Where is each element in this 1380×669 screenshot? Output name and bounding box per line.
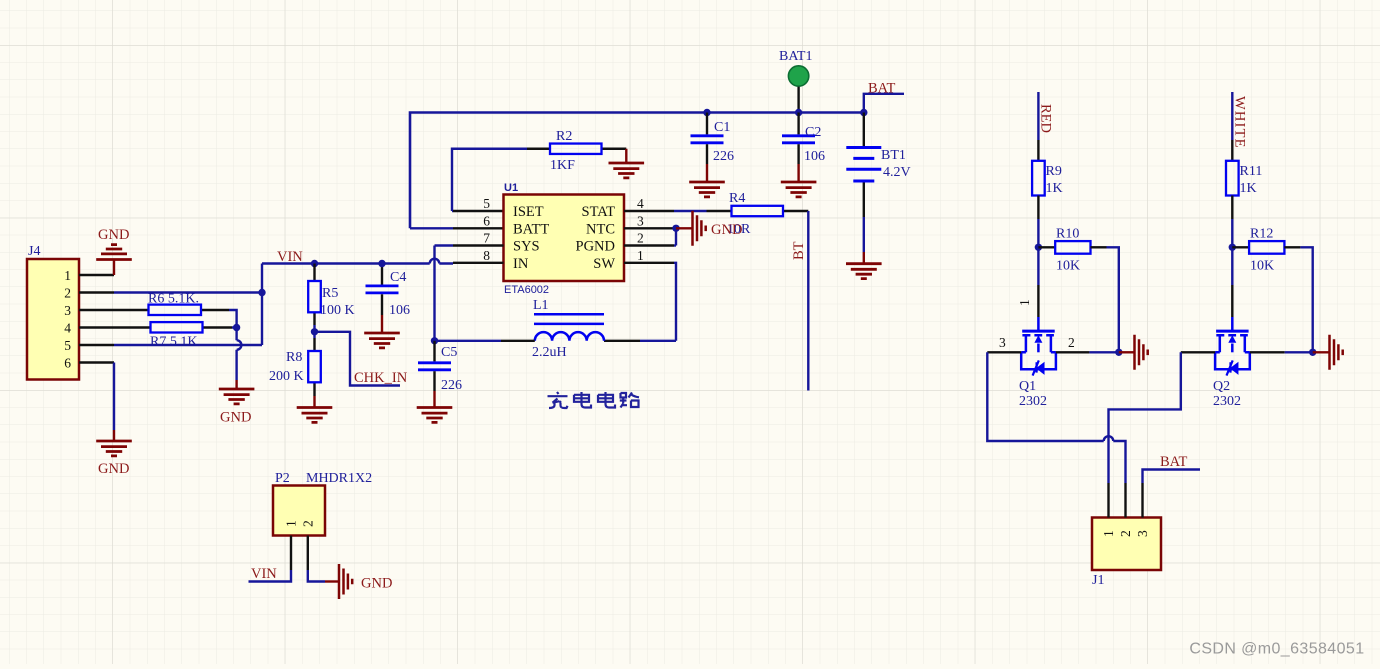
svg-text:R7 5.1K: R7 5.1K	[150, 335, 197, 350]
svg-text:10K: 10K	[1250, 259, 1274, 274]
svg-text:10K: 10K	[1056, 259, 1080, 274]
svg-text:3: 3	[1135, 530, 1150, 537]
svg-text:106: 106	[804, 149, 825, 164]
U1 pin number 5	[483, 196, 490, 211]
ground below C1	[689, 164, 725, 197]
junction R5/R8/CHK_IN	[311, 325, 318, 338]
resistor R7	[138, 322, 232, 349]
svg-text:SYS: SYS	[513, 239, 540, 255]
J4 pin 3	[64, 303, 136, 318]
svg-text:GND: GND	[98, 227, 129, 243]
svg-text:2.2uH: 2.2uH	[532, 345, 567, 360]
wire SYS down to C5 node	[433, 246, 435, 341]
svg-text:226: 226	[713, 149, 734, 164]
resistor R6	[136, 292, 229, 316]
svg-text:VIN: VIN	[251, 566, 277, 582]
svg-text:1K: 1K	[1240, 181, 1257, 196]
svg-text:7: 7	[483, 231, 490, 246]
U1 pin number 3	[637, 213, 644, 228]
wire BT vertical	[807, 211, 809, 391]
svg-text:4: 4	[637, 196, 644, 211]
wire pin2 to VIN node	[114, 291, 262, 293]
U1 pin number 8	[483, 248, 490, 263]
U1 pin3 NTC stub	[624, 227, 676, 229]
svg-text:STAT: STAT	[582, 204, 616, 220]
wire R6 right to gnd column	[229, 310, 237, 318]
svg-text:SW: SW	[593, 256, 615, 272]
capacitor C5	[418, 341, 462, 393]
svg-text:2: 2	[300, 520, 315, 527]
resistor R11	[1226, 140, 1262, 219]
U1 pin1 SW stub	[624, 263, 676, 341]
J4 pin 6	[64, 356, 114, 371]
net label BAT at J1	[1143, 454, 1201, 483]
junction Q1 source/R10	[1115, 349, 1122, 356]
ground right of Q2	[1313, 335, 1343, 370]
U1 pin number 4	[637, 196, 644, 211]
svg-text:GND: GND	[220, 410, 251, 426]
J4 pin 2	[64, 286, 114, 301]
svg-text:BAT: BAT	[868, 81, 896, 97]
Q1 source stub	[1056, 351, 1119, 353]
capacitor C1	[691, 113, 735, 165]
title 充电电路	[548, 392, 640, 408]
svg-text:J1: J1	[1092, 573, 1104, 588]
wire CHK_IN	[315, 332, 401, 386]
junction C2	[795, 109, 802, 116]
net label VIN at P2	[251, 566, 277, 582]
svg-text:BT1: BT1	[881, 148, 906, 163]
resistor R8	[269, 338, 321, 396]
P2 pin 1	[284, 520, 299, 570]
svg-text:MHDR1X2: MHDR1X2	[306, 471, 372, 486]
wire R2 to U1 pin5 ISET	[452, 149, 527, 211]
connector J4	[27, 244, 79, 380]
Q2 source stub	[1250, 351, 1313, 353]
svg-text:5: 5	[64, 338, 71, 353]
J1 pin 1	[1101, 483, 1116, 537]
net label CHK_IN	[354, 370, 408, 386]
svg-text:L1: L1	[533, 298, 549, 313]
svg-text:GND: GND	[98, 461, 129, 477]
net label WHITE	[1232, 96, 1248, 149]
test point BAT1	[779, 49, 812, 113]
resistor R4	[707, 191, 809, 237]
svg-text:4: 4	[64, 321, 71, 336]
net label VIN	[277, 249, 303, 265]
svg-text:1: 1	[64, 268, 71, 283]
svg-text:C4: C4	[390, 270, 406, 285]
wire R12 to source node	[1300, 247, 1312, 352]
svg-text:R5: R5	[322, 286, 338, 301]
junction R11/R12	[1229, 244, 1236, 251]
svg-text:PGND: PGND	[576, 239, 615, 255]
svg-text:2: 2	[1068, 335, 1075, 350]
J4 pin 1	[64, 268, 114, 283]
svg-text:R11: R11	[1240, 164, 1263, 179]
svg-text:106: 106	[389, 303, 410, 318]
watermark	[1189, 641, 1364, 658]
J1 pin 2	[1118, 483, 1133, 537]
wire Q1 gate to J1 pin2	[987, 352, 1125, 483]
svg-text:BAT: BAT	[1160, 454, 1188, 470]
resistor R9	[1032, 140, 1063, 219]
ground below C5	[417, 391, 453, 422]
svg-text:J4: J4	[28, 244, 40, 259]
svg-text:2302: 2302	[1213, 394, 1241, 409]
junction R7/gnd	[233, 324, 240, 331]
wire R11 to Q2 drain	[1231, 219, 1233, 285]
svg-text:RED: RED	[1038, 104, 1054, 133]
svg-text:C1: C1	[714, 120, 730, 135]
svg-text:GND: GND	[361, 576, 392, 592]
svg-text:R8: R8	[286, 350, 302, 365]
junction R9/R10	[1035, 244, 1042, 251]
wire Q2 gate to J1 pin1 with hop	[1109, 352, 1181, 483]
ground below R6/R7	[219, 380, 255, 426]
svg-text:R10: R10	[1056, 227, 1079, 242]
wire pin6 down to ground	[113, 363, 115, 431]
junction C1	[703, 109, 710, 116]
ground above J4 pin1	[96, 227, 132, 275]
svg-text:1KF: 1KF	[550, 158, 575, 173]
svg-text:1K: 1K	[1046, 181, 1063, 196]
junction BT1	[860, 109, 867, 116]
ground right of NTC	[676, 211, 742, 246]
wire VIN horizontal	[262, 259, 453, 264]
svg-text:1: 1	[1017, 299, 1032, 306]
Q1 pin label 1	[1017, 299, 1032, 306]
resistor R12	[1232, 227, 1300, 274]
svg-text:Q2: Q2	[1213, 379, 1230, 394]
svg-text:100 K: 100 K	[320, 303, 355, 318]
wire RED to R9	[1037, 92, 1039, 140]
ground right of Q1	[1119, 335, 1148, 370]
svg-text:1: 1	[1101, 530, 1116, 537]
ground below R8	[297, 396, 333, 422]
svg-text:R2: R2	[556, 129, 572, 144]
svg-text:U1: U1	[504, 182, 518, 194]
junction NTC/PGND	[672, 225, 679, 246]
svg-text:R4: R4	[729, 191, 745, 206]
svg-text:226: 226	[441, 378, 462, 393]
svg-text:1: 1	[284, 520, 299, 527]
junction C5	[431, 337, 438, 344]
ground below C2	[781, 164, 817, 197]
wire R10 to source node	[1107, 247, 1119, 352]
junction pin2/VIN column	[258, 289, 265, 296]
svg-text:IN: IN	[513, 256, 529, 272]
junction VIN/C4	[378, 260, 385, 267]
svg-text:3: 3	[64, 303, 71, 318]
capacitor C4	[366, 264, 411, 319]
ground at P2 pin2	[325, 564, 392, 599]
svg-text:R6 5.1K.: R6 5.1K.	[148, 292, 199, 307]
svg-text:2: 2	[64, 286, 71, 301]
svg-text:BAT1: BAT1	[779, 49, 812, 64]
Q2 gate stub	[1181, 351, 1215, 353]
Q1 pin label 3	[999, 335, 1006, 350]
J4 pin 5	[64, 338, 114, 353]
net label RED	[1038, 104, 1054, 133]
svg-text:WHITE: WHITE	[1232, 96, 1248, 149]
ground below BT1	[846, 252, 882, 279]
resistor R10	[1038, 227, 1106, 274]
net label BT	[791, 241, 807, 260]
svg-text:4.2V: 4.2V	[883, 165, 911, 180]
wire pin5 to VIN column with hop	[114, 264, 262, 346]
net label BAT top	[864, 81, 904, 113]
U1 pin number 7	[483, 231, 490, 246]
svg-text:1: 1	[637, 248, 644, 263]
resistor R2	[527, 129, 626, 173]
resistor R5	[308, 264, 354, 326]
wire L1 left to C5 node	[435, 340, 535, 342]
svg-text:GND: GND	[711, 222, 742, 238]
U1 pin7 SYS stub	[435, 244, 504, 246]
J4 pin 4	[64, 321, 138, 336]
U1 pin2 PGND stub	[624, 244, 676, 246]
svg-text:Q1: Q1	[1019, 379, 1036, 394]
IC U1 ETA6002	[504, 182, 625, 296]
svg-text:3: 3	[999, 335, 1006, 350]
wire SW to L1	[604, 340, 676, 342]
Q1 pin label 2	[1068, 335, 1075, 350]
svg-text:CHK_IN: CHK_IN	[354, 370, 408, 386]
junction VIN/R5	[311, 260, 318, 267]
U1 pin8 IN stub	[453, 262, 504, 264]
wire R9 to Q1 drain	[1037, 219, 1039, 285]
U1 pin4 STAT stub	[624, 210, 707, 212]
svg-text:ETA6002: ETA6002	[504, 284, 549, 296]
svg-text:BATT: BATT	[513, 221, 549, 237]
U1 pin number 1	[637, 248, 644, 263]
svg-text:C5: C5	[441, 345, 457, 360]
svg-text:6: 6	[483, 213, 490, 228]
wire P2 pin1 to VIN	[249, 570, 292, 582]
svg-text:BT: BT	[791, 241, 807, 260]
svg-text:R12: R12	[1250, 227, 1273, 242]
svg-text:ISET: ISET	[513, 204, 544, 220]
connector J1	[1092, 518, 1161, 589]
U1 pin number 6	[483, 213, 490, 228]
wire WHITE to R11	[1231, 92, 1233, 140]
ground at R2 right	[609, 149, 645, 178]
wire R7 right to gnd column	[232, 318, 241, 380]
svg-text:C2: C2	[805, 125, 821, 140]
junction Q2 source/R12	[1309, 349, 1316, 356]
svg-text:200 K: 200 K	[269, 369, 304, 384]
svg-text:6: 6	[64, 356, 71, 371]
wire U1 pin6 BATT	[410, 227, 504, 229]
capacitor C2	[782, 113, 825, 165]
svg-text:CSDN @m0_63584051: CSDN @m0_63584051	[1189, 641, 1364, 658]
svg-text:NTC: NTC	[586, 221, 615, 237]
transistor Q1	[1019, 285, 1056, 409]
svg-text:2: 2	[1118, 530, 1133, 537]
ground below C4	[364, 315, 400, 348]
svg-text:2: 2	[637, 231, 644, 246]
svg-text:2302: 2302	[1019, 394, 1047, 409]
P2 pin 2	[300, 520, 315, 570]
wire BATT top rail	[410, 113, 864, 229]
J1 pin 3	[1135, 483, 1150, 537]
Q1 gate stub	[987, 351, 1021, 353]
svg-text:R9: R9	[1046, 164, 1062, 179]
connector P2	[273, 471, 372, 536]
svg-text:P2: P2	[275, 471, 290, 486]
battery BT1	[846, 113, 910, 253]
svg-text:3: 3	[637, 213, 644, 228]
wire P2 pin2 to ground	[308, 570, 325, 582]
transistor Q2	[1213, 285, 1250, 409]
ground below J4 pin6	[96, 430, 132, 477]
inductor L1	[532, 298, 604, 360]
svg-text:5: 5	[483, 196, 490, 211]
U1 pin number 2	[637, 231, 644, 246]
svg-text:8: 8	[483, 248, 490, 263]
